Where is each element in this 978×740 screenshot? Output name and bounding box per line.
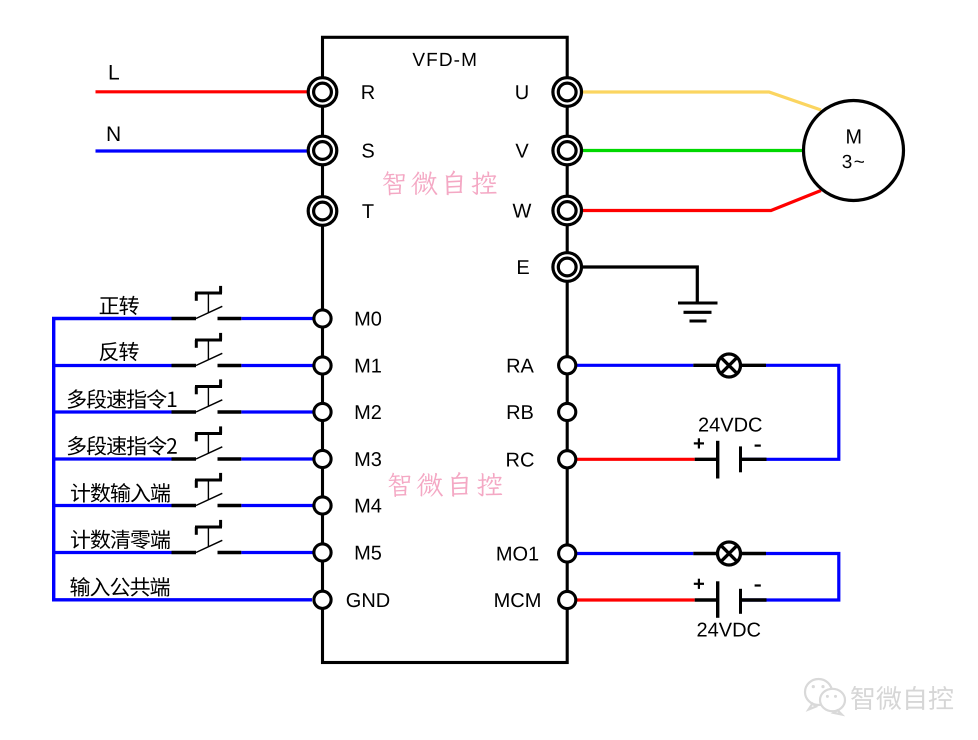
switch S2 (M1 row): [172, 333, 242, 366]
svg-text:M5: M5: [354, 543, 382, 565]
svg-text:RA: RA: [506, 356, 534, 378]
battery B2 minus sign: [755, 584, 761, 586]
wire RA to lamp (blue): [576, 364, 693, 367]
terminal M0: [314, 310, 331, 327]
logo wechat icon: [805, 679, 845, 715]
motor M 3~: [804, 101, 904, 201]
terminal M2: [314, 403, 331, 420]
wire lamp leads RA row (black): [693, 364, 718, 367]
logo text 智微自控: [851, 686, 953, 710]
terminal MO1: [559, 545, 576, 562]
VFD-M inverter box U1: [323, 37, 568, 662]
terminal V (ring): [553, 136, 582, 165]
terminal M1: [314, 357, 331, 374]
battery B1 plus sign: [694, 438, 704, 448]
svg-text:RC: RC: [506, 450, 535, 472]
svg-text:S: S: [361, 141, 374, 163]
svg-text:M3: M3: [354, 449, 382, 471]
terminal S (ring): [308, 136, 337, 165]
battery B2 24VDC: [716, 581, 719, 618]
svg-text:24VDC: 24VDC: [698, 415, 762, 437]
switch S4 (M3 row): [172, 426, 242, 459]
wire MO1 to lamp (blue): [576, 552, 693, 555]
svg-text:V: V: [515, 141, 529, 163]
blue common bus (left): [54, 319, 312, 600]
svg-text:M: M: [845, 125, 862, 148]
terminal RC: [559, 451, 576, 468]
switch S3 (M2 row): [172, 379, 242, 412]
svg-text:VFD-M: VFD-M: [412, 50, 478, 71]
wire W (red) to motor: [582, 191, 822, 211]
terminal GND: [314, 591, 331, 608]
terminal W (ring): [553, 196, 582, 225]
wire E to ground: [582, 267, 698, 303]
terminal M5: [314, 544, 331, 561]
svg-text:U: U: [515, 82, 529, 104]
wire N (blue) to S terminal: [96, 149, 311, 152]
wire row M1 (blue): [54, 364, 172, 367]
wire U (yellow) to motor: [582, 92, 822, 110]
switch S6 (M5 row): [172, 520, 242, 553]
label 计数输入端: [71, 483, 170, 502]
wire MCM (red): [576, 598, 695, 601]
wire row M4 (blue): [54, 504, 172, 507]
label 反转: [100, 342, 139, 361]
svg-text:M0: M0: [354, 309, 382, 331]
wire row M3 (blue): [54, 457, 172, 460]
battery B1 minus sign: [755, 445, 761, 447]
terminal M4: [314, 497, 331, 514]
wire lamp to bus (blue) + right bus 1: [742, 365, 839, 459]
battery B1 leads (black): [695, 458, 716, 461]
svg-text:N: N: [106, 123, 121, 146]
svg-text:GND: GND: [346, 590, 390, 612]
lamp L2: [718, 542, 741, 565]
wire lamp to bus (blue) + right bus 2: [742, 554, 839, 601]
svg-text:MO1: MO1: [496, 544, 539, 566]
svg-text:M4: M4: [354, 496, 382, 518]
terminal T (ring): [308, 197, 337, 226]
terminal U (ring): [553, 78, 582, 107]
watermark 智微自控 upper: [383, 170, 497, 195]
wire V (green) to motor: [582, 149, 804, 152]
svg-text:E: E: [516, 257, 529, 279]
lamp L1: [718, 354, 741, 377]
battery B2 leads (black): [695, 598, 716, 601]
switch S5 (M4 row): [172, 473, 242, 506]
battery B2 plus sign: [694, 579, 704, 589]
watermark 智微自控 middle: [388, 472, 502, 497]
svg-text:MCM: MCM: [494, 590, 542, 612]
terminal RB: [559, 403, 576, 420]
svg-text:T: T: [362, 201, 374, 223]
svg-text:M2: M2: [354, 402, 382, 424]
lamp leads MO1 row (black): [693, 552, 718, 555]
terminal R (ring): [308, 78, 337, 107]
svg-text:3~: 3~: [842, 152, 865, 173]
svg-text:RB: RB: [506, 402, 534, 424]
label 多段速指令1: [68, 389, 177, 409]
wire row M0 (blue): [241, 317, 314, 320]
battery B1 24VDC: [716, 441, 719, 479]
switch S1 (M0 row): [172, 286, 242, 319]
terminal MCM: [559, 591, 576, 608]
svg-text:W: W: [513, 201, 532, 223]
ground symbol: [678, 303, 718, 321]
label 输入公共端: [70, 577, 169, 596]
terminal RA: [559, 357, 576, 374]
label 多段速指令2: [68, 436, 177, 456]
label 正转: [100, 296, 139, 315]
terminal E (ring): [553, 253, 582, 282]
label 计数清零端: [71, 530, 170, 550]
svg-text:L: L: [108, 62, 120, 85]
svg-text:R: R: [361, 82, 375, 104]
wire RC (red): [576, 458, 695, 461]
svg-text:24VDC: 24VDC: [697, 620, 761, 642]
wire L (red) to R terminal: [96, 90, 311, 93]
svg-text:M1: M1: [354, 356, 382, 378]
wire row M5 (blue): [54, 551, 172, 554]
wire row M2 (blue): [54, 410, 172, 413]
terminal M3: [314, 450, 331, 467]
